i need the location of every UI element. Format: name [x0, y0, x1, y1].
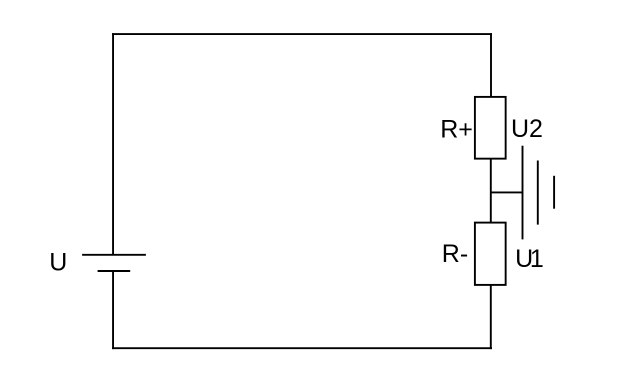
ground bar short [553, 176, 555, 209]
svg-text:R-: R- [442, 240, 468, 268]
wire to ground [491, 191, 523, 193]
svg-text:U1: U1 [515, 245, 544, 273]
wire right upper [490, 33, 492, 97]
ground bar long [522, 146, 524, 240]
svg-text:U2: U2 [511, 115, 543, 143]
svg-text:U: U [49, 248, 67, 276]
ground bar middle [537, 161, 539, 225]
battery U long plate [82, 254, 146, 256]
wire bottom [112, 347, 492, 349]
wire left upper [112, 33, 114, 255]
wire right lower [490, 285, 492, 349]
wire top [112, 33, 492, 35]
resistor R- [475, 223, 506, 285]
battery U short plate [98, 270, 131, 272]
wire middle node [490, 159, 492, 223]
svg-text:R+: R+ [440, 116, 473, 144]
wire left lower [112, 271, 114, 349]
resistor R+ [475, 97, 506, 159]
